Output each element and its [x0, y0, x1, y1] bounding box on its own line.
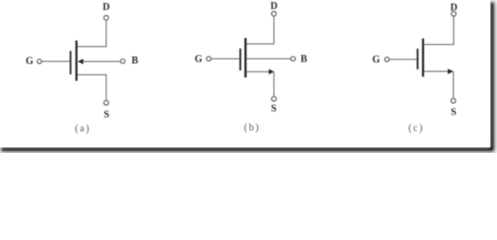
svg-text:G: G [26, 56, 34, 67]
svg-text:G: G [195, 54, 203, 65]
svg-text:D: D [103, 2, 110, 13]
svg-text:S: S [271, 103, 277, 114]
svg-text:B: B [131, 56, 138, 67]
svg-text:B: B [300, 54, 307, 65]
svg-text:D: D [270, 1, 277, 12]
svg-text:D: D [450, 3, 457, 14]
svg-text:S: S [104, 110, 110, 121]
svg-text:(c): (c) [408, 123, 424, 134]
svg-text:(a): (a) [75, 124, 91, 135]
svg-text:(b): (b) [244, 122, 260, 133]
svg-text:G: G [372, 55, 380, 66]
svg-text:S: S [451, 107, 457, 118]
